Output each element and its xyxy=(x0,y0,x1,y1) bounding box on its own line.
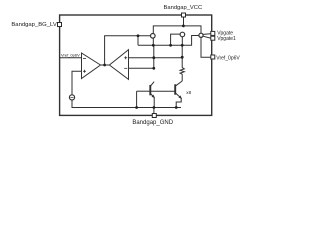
svg-text:Vref_0p6V: Vref_0p6V xyxy=(61,53,80,58)
svg-text:Bandgap_VCC: Bandgap_VCC xyxy=(164,5,203,11)
svg-text:Bandgap_GND: Bandgap_GND xyxy=(132,120,173,126)
svg-text:x8: x8 xyxy=(186,90,191,95)
svg-text:Bandgap_BG_LV: Bandgap_BG_LV xyxy=(11,22,56,28)
svg-text:Vref_0p6V: Vref_0p6V xyxy=(216,55,240,61)
svg-text:Vpgate1: Vpgate1 xyxy=(217,36,236,42)
